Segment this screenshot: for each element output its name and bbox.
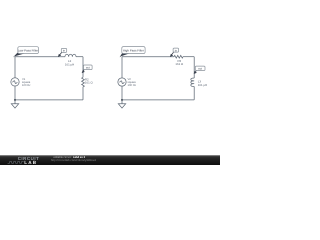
- svg-text:100 Hz: 100 Hz: [128, 84, 137, 87]
- voltage source V1: [11, 78, 19, 86]
- wire left vertical upper (top rail to V2): [121, 57, 123, 78]
- svg-text:out: out: [86, 67, 90, 70]
- node flag "in" (left circuit input): [58, 48, 67, 56]
- svg-text:100 Hz: 100 Hz: [22, 84, 31, 87]
- caption line 2: circuit URL: [51, 159, 97, 162]
- resistor R2: [82, 77, 85, 87]
- bottom bar background: [0, 155, 220, 165]
- label L3 value: [198, 80, 207, 87]
- svg-text:161 µH: 161 µH: [198, 83, 207, 87]
- svg-text:out: out: [198, 68, 202, 71]
- junction dot left circuit: [14, 99, 16, 101]
- wire top rail right segment (R3 to corner): [183, 56, 194, 58]
- wire left vertical upper (top rail to V1): [14, 57, 16, 78]
- wire top rail left segment (V1 to L2): [15, 56, 65, 58]
- node flag "out" (right circuit output): [194, 66, 205, 74]
- CircuitLab logo text CIRCUIT: [18, 156, 40, 161]
- ground left circuit: [11, 104, 18, 108]
- caption line 1: circuit title: [53, 156, 85, 159]
- node flag "in" (right circuit input): [170, 48, 179, 57]
- label R2 value: [85, 77, 94, 84]
- annotation "Low Pass Filter": [13, 47, 39, 58]
- svg-text:LAB: LAB: [24, 160, 37, 165]
- inductor L3: [191, 78, 194, 87]
- inductor L2: [65, 54, 76, 56]
- svg-text:http://circuitlab.com/c/4rsvfy: http://circuitlab.com/c/4rsvfy985sw3: [51, 159, 97, 162]
- wire right vertical upper (corner to R2): [82, 57, 84, 78]
- svg-text:161 Ω: 161 Ω: [175, 62, 184, 66]
- wire right vertical lower (L3 to bottom rail): [193, 87, 195, 100]
- voltage source V2: [118, 78, 126, 86]
- ground right circuit: [118, 104, 125, 108]
- svg-text:161 Ω: 161 Ω: [85, 80, 94, 84]
- resistor R3: [174, 55, 183, 58]
- wire top rail left segment (V2 to R3): [122, 56, 174, 58]
- svg-text:161 µH: 161 µH: [65, 62, 74, 66]
- wire left vertical lower (V2 to ground node): [121, 86, 123, 104]
- svg-text:Low Pass Filter: Low Pass Filter: [18, 49, 39, 53]
- wire top rail right segment (L2 to corner): [76, 56, 83, 58]
- wire left vertical lower (V1 to ground node): [14, 86, 16, 104]
- label V2 value: [128, 78, 137, 87]
- label L2 value: [65, 59, 74, 66]
- label V1 value: [22, 78, 31, 87]
- wire bottom rail right circuit: [122, 99, 194, 101]
- label R3 value: [175, 59, 184, 66]
- CircuitLab logo waveform glyph: [8, 162, 24, 164]
- wire right vertical upper (corner to L3): [193, 57, 195, 78]
- wire bottom rail: [15, 99, 83, 101]
- svg-text:High Pass Filter: High Pass Filter: [123, 48, 144, 52]
- junction dot right circuit: [121, 99, 123, 101]
- CircuitLab logo text LAB: [24, 160, 37, 165]
- annotation "High Pass Filter": [120, 47, 146, 58]
- wire right vertical lower (R2 to bottom rail): [82, 87, 84, 100]
- node flag "out" (left circuit output): [82, 65, 92, 73]
